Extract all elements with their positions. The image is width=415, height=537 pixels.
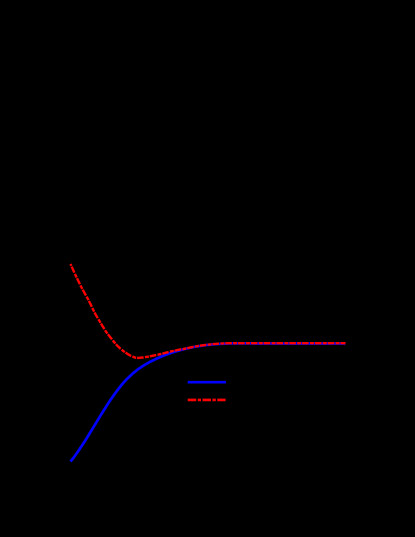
blue solid curve bbox=[71, 343, 346, 461]
red dash-dot curve bbox=[71, 264, 346, 358]
legend blue solid line sample bbox=[188, 381, 226, 384]
legend red dash-dot line sample bbox=[188, 399, 226, 402]
